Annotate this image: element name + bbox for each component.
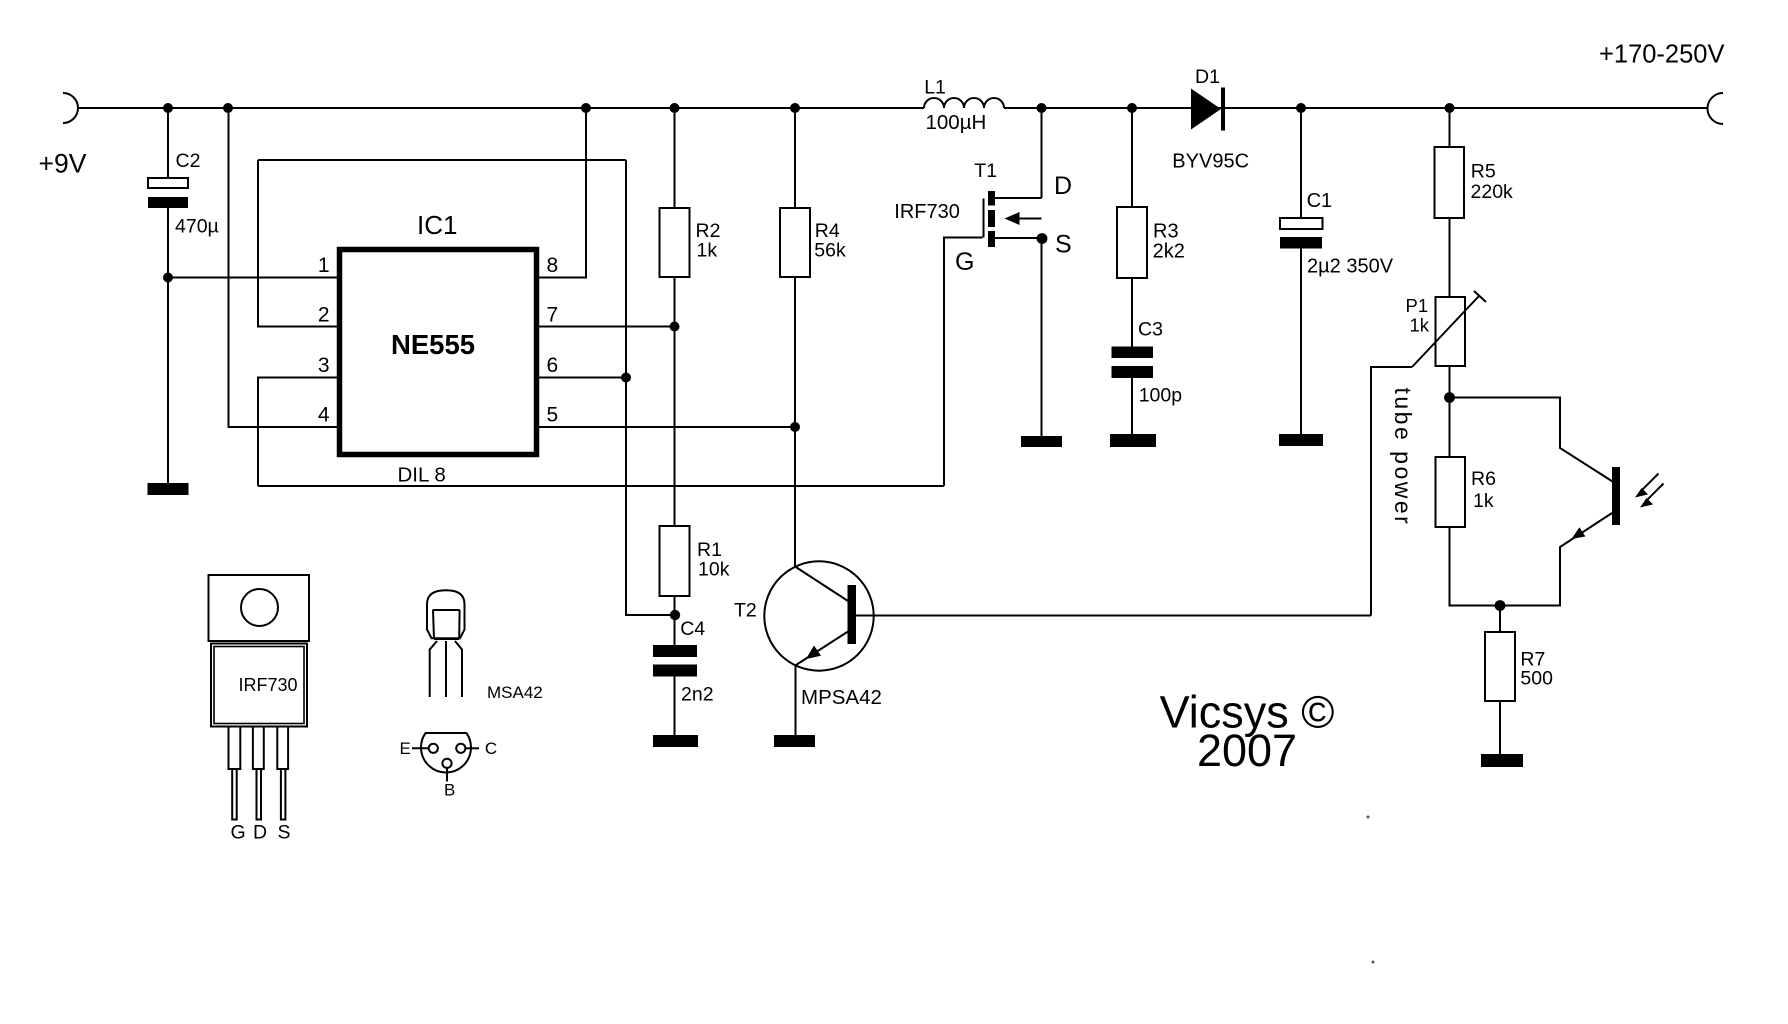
wire T2 base feedback <box>856 615 1371 617</box>
svg-text:BYV95C: BYV95C <box>1172 151 1249 173</box>
potentiometer P1 <box>1436 297 1466 366</box>
node rail-R4 <box>790 103 800 113</box>
TO-220 leg G <box>229 727 241 770</box>
svg-text:R5: R5 <box>1471 161 1496 183</box>
svg-text:2n2: 2n2 <box>681 684 714 706</box>
svg-text:tube power: tube power <box>1390 388 1416 527</box>
wire pin1 <box>168 277 337 279</box>
svg-text:D1: D1 <box>1195 66 1220 88</box>
node rail-C1 <box>1296 103 1306 113</box>
svg-text:5: 5 <box>547 404 559 427</box>
wire pin4 <box>229 108 338 427</box>
resistor R2 <box>674 108 676 208</box>
svg-text:MPSA42: MPSA42 <box>801 686 882 709</box>
node R6-opto-R7 <box>1495 600 1506 611</box>
speck 2 <box>1372 961 1375 964</box>
svg-text:E: E <box>400 739 411 758</box>
svg-text:D: D <box>253 822 267 844</box>
wire P1 wiper to tube power line <box>1371 367 1412 616</box>
pin E <box>429 744 438 753</box>
wire R5 to P1 <box>1449 218 1451 297</box>
wire R1 to C4 <box>674 596 676 645</box>
svg-text:C4: C4 <box>680 618 705 640</box>
svg-text:8: 8 <box>547 254 559 277</box>
pin C <box>456 744 465 753</box>
svg-text:1: 1 <box>318 254 330 277</box>
wire pin6 vertical to C4 junction <box>626 160 675 615</box>
svg-text:B: B <box>444 781 455 800</box>
node pin7-R2 <box>670 322 680 332</box>
node rail-pin4 <box>223 103 233 113</box>
inductor L1 <box>924 98 1004 108</box>
resistor R1 <box>660 526 690 596</box>
diode D1 BYV95C <box>1191 89 1221 130</box>
svg-text:NE555: NE555 <box>391 329 475 360</box>
light arrow 2 <box>1646 484 1664 502</box>
node rail-C2 <box>163 103 173 113</box>
wire gate riser to T1 <box>944 238 983 487</box>
svg-text:T2: T2 <box>734 599 757 621</box>
node pin6-tie <box>621 373 631 383</box>
resistor R6 <box>1436 457 1466 527</box>
svg-text:100p: 100p <box>1139 385 1183 407</box>
svg-text:IC1: IC1 <box>417 210 457 240</box>
svg-text:+170-250V: +170-250V <box>1599 41 1724 69</box>
wire pin8 <box>539 108 586 278</box>
TO-92 bottom view <box>421 733 471 772</box>
wire top rail left of L1 <box>77 107 924 109</box>
svg-text:1k: 1k <box>1473 490 1494 512</box>
svg-text:2007: 2007 <box>1197 725 1297 776</box>
svg-text:C: C <box>485 739 497 758</box>
speck 1 <box>1367 816 1370 819</box>
ground R7 <box>1481 754 1523 767</box>
wire to opto collector <box>1450 398 1613 482</box>
wire R7 bottom <box>1499 701 1501 754</box>
svg-text:56k: 56k <box>814 240 846 262</box>
transistor T2 MPSA42 <box>764 561 873 670</box>
svg-text:P1: P1 <box>1406 295 1429 316</box>
capacitor C1 <box>1300 108 1302 218</box>
wire pin2 <box>258 160 337 327</box>
svg-text:220k: 220k <box>1471 181 1514 203</box>
svg-text:7: 7 <box>547 304 559 327</box>
svg-text:100µH: 100µH <box>926 111 987 134</box>
wire pin2-pin6 top tie <box>258 159 626 161</box>
transistor T1 IRF730 mosfet <box>983 199 985 238</box>
ground T2 <box>774 735 815 747</box>
svg-text:G: G <box>231 822 246 844</box>
svg-text:IRF730: IRF730 <box>239 675 298 695</box>
svg-text:C2: C2 <box>176 150 201 172</box>
output terminal <box>1707 93 1723 124</box>
wire top rail right of L1 <box>1004 107 1708 109</box>
wire pin7 <box>539 326 675 328</box>
wire pin5 <box>539 426 795 428</box>
node C2-pin1 <box>163 273 173 283</box>
svg-text:10k: 10k <box>698 559 730 581</box>
ground T1 <box>1021 436 1062 447</box>
node rail-R5 <box>1445 103 1455 113</box>
svg-text:G: G <box>955 248 974 276</box>
ground C3 <box>1110 434 1156 447</box>
TO-92 package MSA42 side view <box>427 590 465 638</box>
wire pin3 output bottom run <box>258 485 944 487</box>
svg-text:R3: R3 <box>1153 220 1179 242</box>
wire P1 bottom <box>1449 366 1451 457</box>
node pin5-R4 <box>790 422 800 432</box>
capacitor C2 <box>167 108 169 178</box>
svg-text:S: S <box>278 822 291 844</box>
phototransistor <box>1612 467 1620 525</box>
timer IC1 NE555 box <box>340 250 537 455</box>
node R1-C4-pin26 <box>670 610 680 620</box>
resistor R7 <box>1499 606 1501 633</box>
svg-text:DIL 8: DIL 8 <box>398 464 446 487</box>
TO-220 package IRF730 drawing <box>209 575 310 641</box>
ground C2 <box>148 483 189 495</box>
svg-text:C1: C1 <box>1307 190 1333 212</box>
svg-text:6: 6 <box>547 354 559 377</box>
pin B <box>442 759 451 768</box>
svg-text:D: D <box>1054 172 1072 200</box>
TO-92 legs <box>430 641 437 697</box>
wire pin3 <box>258 378 337 487</box>
ground C4 <box>653 735 698 747</box>
svg-text:R6: R6 <box>1471 468 1496 490</box>
svg-text:2µ2 350V: 2µ2 350V <box>1307 256 1394 278</box>
svg-text:L1: L1 <box>924 77 946 99</box>
resistor R4 <box>794 108 796 208</box>
node rail-R3 <box>1127 103 1137 113</box>
svg-text:2k2: 2k2 <box>1153 240 1185 262</box>
wire R6 bottom <box>1450 527 1501 606</box>
input terminal +9V <box>63 93 78 123</box>
svg-text:T1: T1 <box>974 160 997 182</box>
node rail-T1drain <box>1037 103 1047 113</box>
node rail-R2 <box>670 103 680 113</box>
node P1-R6 <box>1444 392 1455 403</box>
svg-text:MSA42: MSA42 <box>487 683 543 702</box>
svg-text:IRF730: IRF730 <box>894 201 960 223</box>
node rail-pin8 <box>581 103 591 113</box>
resistor R5 <box>1449 108 1451 147</box>
svg-text:500: 500 <box>1520 668 1553 690</box>
capacitor C4 <box>653 645 697 657</box>
resistor R3 <box>1131 108 1133 207</box>
wire R4 to T2 collector <box>794 277 796 567</box>
svg-text:S: S <box>1055 231 1072 259</box>
TO-220 leg D <box>253 727 264 770</box>
wire R2 to R1 <box>674 277 676 526</box>
svg-text:3: 3 <box>318 354 330 377</box>
light arrow 1 <box>1641 474 1659 492</box>
wire pin6 <box>539 377 626 379</box>
TO-220 leg S <box>277 727 288 770</box>
capacitor C3 <box>1112 347 1154 359</box>
svg-text:2: 2 <box>318 304 330 327</box>
svg-text:C3: C3 <box>1138 319 1163 341</box>
ground C1 <box>1279 434 1323 446</box>
svg-text:+9V: +9V <box>39 149 87 179</box>
svg-text:1k: 1k <box>1410 315 1430 336</box>
svg-text:470µ: 470µ <box>175 216 219 238</box>
svg-text:4: 4 <box>318 404 330 427</box>
wire R3 to C3 <box>1131 278 1133 347</box>
svg-text:1k: 1k <box>697 240 718 262</box>
